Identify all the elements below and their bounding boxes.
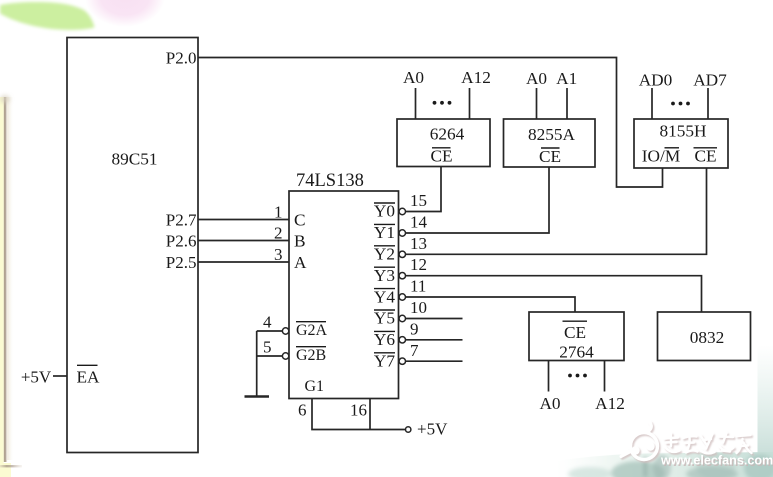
svg-text:CE: CE xyxy=(564,323,586,342)
svg-text:12: 12 xyxy=(410,255,427,274)
svg-text:Y3: Y3 xyxy=(374,266,395,285)
svg-text:A: A xyxy=(294,253,307,272)
svg-text:Y5: Y5 xyxy=(374,309,395,328)
svg-text:+5V: +5V xyxy=(21,368,52,387)
svg-text:AD0: AD0 xyxy=(639,71,673,90)
svg-text:8155H: 8155H xyxy=(659,122,706,141)
svg-text:A12: A12 xyxy=(461,68,491,87)
svg-text:CE: CE xyxy=(430,147,452,166)
svg-text:4: 4 xyxy=(263,313,272,332)
svg-text:EA: EA xyxy=(77,368,101,387)
svg-text:CE: CE xyxy=(694,147,716,166)
svg-text:Y1: Y1 xyxy=(374,223,395,242)
svg-text:6264: 6264 xyxy=(430,125,465,144)
svg-text:Y2: Y2 xyxy=(374,245,395,264)
svg-text:+5V: +5V xyxy=(417,420,448,439)
svg-text:89C51: 89C51 xyxy=(111,150,157,169)
svg-text:13: 13 xyxy=(410,234,427,253)
svg-text:G1: G1 xyxy=(305,378,325,395)
svg-text:IO/M: IO/M xyxy=(642,147,680,166)
svg-text:P2.5: P2.5 xyxy=(166,253,197,272)
svg-text:10: 10 xyxy=(410,298,427,317)
svg-text:Y7: Y7 xyxy=(374,352,395,371)
svg-text:P2.6: P2.6 xyxy=(166,232,197,251)
svg-text:www.elecfans.com: www.elecfans.com xyxy=(660,454,773,468)
svg-text:9: 9 xyxy=(410,319,419,338)
svg-text:Y4: Y4 xyxy=(374,287,395,306)
svg-text:CE: CE xyxy=(539,147,561,166)
svg-text:74LS138: 74LS138 xyxy=(296,171,364,191)
svg-text:A0: A0 xyxy=(526,69,547,88)
svg-text:5: 5 xyxy=(263,338,272,357)
svg-text:P2.0: P2.0 xyxy=(166,49,197,68)
svg-text:6: 6 xyxy=(298,401,307,420)
svg-text:Y0: Y0 xyxy=(374,202,395,221)
svg-text:G2B: G2B xyxy=(296,347,326,364)
svg-text:P2.7: P2.7 xyxy=(166,211,197,230)
svg-text:11: 11 xyxy=(410,277,426,296)
svg-text:C: C xyxy=(294,211,306,230)
svg-text:Y6: Y6 xyxy=(374,330,395,349)
svg-text:14: 14 xyxy=(410,212,428,231)
svg-text:A12: A12 xyxy=(595,394,625,413)
svg-text:15: 15 xyxy=(410,191,427,210)
svg-text:0832: 0832 xyxy=(690,328,725,347)
svg-text:2: 2 xyxy=(274,224,283,243)
svg-text:3: 3 xyxy=(274,245,283,264)
svg-text:16: 16 xyxy=(350,401,367,420)
svg-text:G2A: G2A xyxy=(296,322,328,339)
svg-text:B: B xyxy=(294,232,306,251)
svg-text:7: 7 xyxy=(410,341,419,360)
svg-text:8255A: 8255A xyxy=(528,125,576,144)
svg-text:AD7: AD7 xyxy=(693,71,727,90)
svg-text:A0: A0 xyxy=(539,394,560,413)
svg-text:A1: A1 xyxy=(556,69,577,88)
svg-text:2764: 2764 xyxy=(559,343,594,362)
svg-text:A0: A0 xyxy=(403,68,424,87)
svg-text:1: 1 xyxy=(274,203,283,222)
